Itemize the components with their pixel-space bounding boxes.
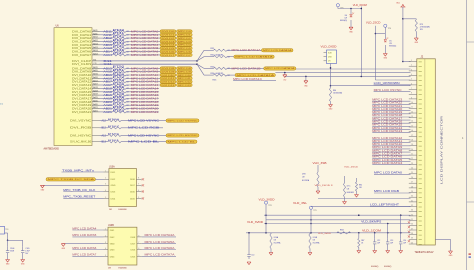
- svg-text:RT63: RT63: [113, 110, 126, 112]
- sheet border: [462, 0, 474, 270]
- svg-text:8: 8: [138, 178, 139, 180]
- wire row DVI_DATA6 b: [126, 51, 160, 53]
- U6 pin stub DVI_DATA5: [92, 46, 100, 49]
- svg-text:18: 18: [411, 140, 413, 142]
- refdes J2: [421, 55, 424, 59]
- U6 pin name DVI_CLKP: [72, 59, 91, 63]
- svg-text:GND: GND: [110, 244, 115, 246]
- svg-text:VLD_2SCD: VLD_2SCD: [366, 21, 381, 24]
- net label MPC_LCD_DATA6: [131, 50, 159, 54]
- ground U10B: [61, 244, 66, 250]
- U6 pin stub DVI_DATA9: [92, 69, 100, 72]
- svg-text:C11: C11: [93, 63, 96, 65]
- wire D6 to bus: [330, 64, 332, 87]
- svg-text:2: 2: [105, 178, 106, 180]
- U6 pin stub DVI_AC_MAX_B0: [92, 141, 100, 143]
- U6 pin stub DVI_DATA7: [92, 53, 100, 56]
- wire row DVI_DATA14: [100, 87, 113, 89]
- wire to connector pin1: [403, 61, 411, 63]
- net label MPC LCD DATA4A right: [142, 234, 176, 237]
- ground D7C: [343, 202, 347, 205]
- U6 pin name DVI_DATA10: [72, 73, 92, 77]
- svg-text:10K/0603(R): 10K/0603(R): [333, 93, 343, 95]
- net label MPC_LCD_DATA0: [131, 29, 159, 33]
- wire row DVI_DATA6: [100, 51, 113, 53]
- ground D7B: [316, 191, 320, 194]
- resistor RT10 0R: [113, 67, 127, 70]
- wire VLD_3VDD vertical: [402, 7, 404, 62]
- IC U10A body: [109, 169, 136, 207]
- wire bus y72.6: [275, 72, 410, 74]
- svg-text:VLD_DIOD: VLD_DIOD: [321, 46, 337, 49]
- wire row DVI_DATA20 b: [126, 108, 159, 110]
- U6 pin stub DVI_CLKN: [92, 63, 100, 65]
- offpage flag MPC_LCD_DATA10 b: [177, 73, 193, 76]
- wire C29 branch: [403, 18, 416, 21]
- value 0R row 21: [126, 105, 129, 107]
- svg-text:E04IGB3: E04IGB3: [347, 192, 354, 194]
- svg-text:DVI D4: DVI D4: [162, 45, 176, 47]
- svg-text:12: 12: [411, 111, 413, 113]
- wire bus y76.4: [285, 76, 411, 78]
- svg-text:DVI_HSYNC: DVI_HSYNC: [70, 133, 91, 137]
- net pin label A13: [102, 134, 107, 137]
- svg-text:C14: C14: [403, 240, 406, 242]
- wire VLD_2SCD vertical: [375, 26, 377, 80]
- svg-text:LCD DISPLAY CONNECTOR: LCD DISPLAY CONNECTOR: [439, 116, 443, 184]
- svg-text:MPC LCD HSYNC: MPC LCD HSYNC: [168, 135, 199, 137]
- wire U10B gnd pin: [63, 243, 103, 245]
- ground C12: [371, 251, 379, 268]
- ground D10A: [269, 253, 273, 256]
- svg-text:MPC LCD DATA21: MPC LCD DATA21: [131, 110, 159, 114]
- refdes U10B: [108, 225, 114, 227]
- wire row DVI_DATA1 b: [126, 34, 160, 36]
- wire row DVI_DATA18: [100, 101, 113, 103]
- U10B left pin 5 DI04: [104, 255, 116, 258]
- svg-text:DI05: DI05: [131, 256, 136, 258]
- offpage flag MPC_LCD_DATA9 a: [160, 70, 176, 73]
- net pin label AB17: [103, 80, 112, 84]
- net pin label B13: [102, 141, 107, 144]
- net pin label AA18: [103, 90, 112, 94]
- net pin label AA11: [103, 33, 112, 37]
- svg-text:3: 3: [105, 184, 106, 186]
- svg-text:RT54: RT54: [113, 80, 126, 82]
- U10B right pin 7 DI07: [131, 242, 142, 246]
- svg-text:AA14: AA14: [93, 53, 97, 56]
- U6 pin name DVI_CLKN: [72, 62, 91, 66]
- svg-text:U10B: U10B: [108, 225, 114, 227]
- diode D5 label: [389, 41, 396, 48]
- U10A right pin 5 DI05: [130, 197, 144, 201]
- net pin label AA19: [103, 97, 112, 101]
- wire row DVI_DATA0: [100, 30, 113, 32]
- power label VLD_3COM: [353, 4, 367, 7]
- net pin label AB20: [103, 100, 112, 104]
- U6 pin name DVI_DATA0: [72, 29, 92, 33]
- U10A right pin 7 DI07: [130, 184, 144, 188]
- wire bus y223.5: [264, 223, 411, 225]
- svg-text:RT61: RT61: [108, 140, 121, 142]
- wire DVI_AC_MAX_B0 b: [121, 141, 166, 143]
- svg-text:RT59: RT59: [113, 97, 126, 99]
- wire row DVI_DATA7 b: [126, 54, 160, 56]
- svg-text:E6SG(D): E6SG(D): [389, 45, 396, 47]
- svg-text:AA21: AA21: [93, 110, 97, 113]
- svg-text:DI07: DI07: [131, 244, 136, 246]
- diode D7B: [302, 165, 319, 191]
- value 0R row 3: [126, 41, 129, 43]
- offpage flag MPC_LCD_DATA0 b: [177, 30, 193, 33]
- svg-text:26: 26: [411, 177, 413, 179]
- connector J2 body: [417, 59, 436, 245]
- svg-text:VLD_3NL: VLD_3NL: [293, 202, 308, 205]
- net label MPC_LCD_DATA17: [131, 97, 159, 101]
- U6 pin stub DVI_DATA10: [92, 73, 100, 76]
- svg-text:C13: C13: [390, 240, 393, 242]
- resistor RT3 0R: [113, 40, 127, 43]
- svg-text:MPC D0: MPC D0: [178, 31, 192, 33]
- svg-text:1: 1: [105, 228, 106, 230]
- U10B left pin 2 DI02: [104, 235, 116, 239]
- U6 pin stub DVI_DATA12: [92, 79, 100, 82]
- offpage flag MPC_LCD_DATA12 b: [177, 80, 193, 83]
- resistor R53: [204, 66, 227, 69]
- svg-text:RT44: RT44: [113, 43, 126, 45]
- svg-text:AB17: AB17: [93, 79, 97, 82]
- svg-text:8: 8: [138, 235, 139, 237]
- testpoint TP9: [309, 206, 316, 212]
- net pin label AB14: [103, 50, 112, 54]
- svg-text:AA15: AA15: [93, 69, 97, 72]
- svg-text:B12: B12: [102, 127, 107, 130]
- U6 pin stub DVI_DATA2: [92, 36, 100, 39]
- svg-text:RT41: RT41: [113, 33, 126, 35]
- value 0R row 17: [126, 92, 129, 94]
- svg-text:VLD_BKMPS: VLD_BKMPS: [361, 221, 382, 224]
- net label MPC LCD VSYNC: [128, 119, 159, 123]
- U6 pin name DVI_DATA18: [72, 100, 92, 104]
- wire clock DVI_CLKP: [100, 60, 198, 62]
- wire row DVI_DATA19 b: [126, 104, 159, 106]
- wire bus y219.8: [266, 219, 411, 221]
- svg-text:37: 37: [411, 228, 413, 230]
- svg-text:35: 35: [411, 219, 413, 221]
- diode D5: [384, 34, 388, 54]
- wire bus y198.5: [318, 198, 411, 200]
- U6 pin name DVI_DATA3: [72, 40, 92, 44]
- net label MPC_LCD_DATA20: [131, 107, 159, 111]
- U10B right pin 5 DI05: [131, 255, 142, 258]
- svg-text:RT52: RT52: [113, 73, 126, 75]
- U6 pin name DVI_RGB: [70, 126, 91, 130]
- value 0R R54+0603(R): [227, 75, 230, 77]
- wire gnd stub a: [284, 73, 286, 75]
- wire row DVI_DATA14 b: [126, 87, 159, 89]
- value 0R row 15: [126, 85, 129, 87]
- svg-text:RT67: RT67: [108, 126, 121, 128]
- U10B right pin 6 DI06: [131, 248, 142, 252]
- svg-text:RT60: RT60: [113, 100, 126, 102]
- offpage flag MPC_LCD_DATA9 b: [177, 70, 193, 73]
- svg-text:VLD_3VDD: VLD_3VDD: [318, 233, 332, 235]
- wire row DVI_DATA4: [100, 44, 113, 46]
- wire row DVI_DATA10: [100, 74, 113, 76]
- svg-text:VLD_1COM: VLD_1COM: [362, 230, 381, 233]
- connector J2 title: [439, 116, 443, 184]
- svg-text:VLD_3VDD: VLD_3VDD: [247, 221, 263, 224]
- svg-text:36: 36: [411, 224, 413, 226]
- net pin label AB19: [103, 93, 112, 97]
- net pin label AA21: [103, 110, 112, 114]
- svg-text:32: 32: [411, 205, 413, 207]
- svg-text:DVI_AC_MAX_B0: DVI_AC_MAX_B0: [70, 140, 92, 144]
- resistor RT18 0R: [113, 94, 127, 97]
- svg-text:11: 11: [411, 107, 413, 109]
- svg-text:25: 25: [411, 172, 413, 174]
- cut marks bottom right: [469, 254, 471, 258]
- wire fan R51: [227, 49, 262, 51]
- power label VLD_DIOD low: [315, 166, 359, 186]
- svg-text:U10A: U10A: [109, 165, 115, 168]
- wire row DVI_DATA9: [100, 71, 113, 73]
- ground R106: [6, 260, 11, 266]
- U10A left pin 3 GND: [104, 184, 116, 188]
- resistor RT13 0R: [113, 77, 127, 80]
- net label MPC_LCD_RGB: [374, 190, 411, 193]
- U6 pin name DVI_DATA7: [72, 53, 92, 57]
- resistor R79: [415, 20, 430, 39]
- wire bus y80: [375, 79, 410, 81]
- svg-text:1UF: 1UF: [390, 243, 393, 245]
- U6 pin stub DVI_DATA21: [92, 110, 100, 113]
- U10B left pin 3 GND: [104, 242, 115, 246]
- wire row DVI_DATA2 b: [126, 37, 160, 39]
- U6 pin stub DVI_DATA0: [92, 29, 100, 32]
- net labels block2 MPC_LCD_DATA: [372, 136, 410, 165]
- net label MPC LCD DATA6 left: [72, 247, 103, 250]
- resistor RT6 0R: [113, 50, 127, 53]
- svg-text:MPC LCD DATA1B: MPC LCD DATA1B: [232, 66, 261, 70]
- svg-text:6: 6: [138, 248, 139, 250]
- wire row DVI_DATA17: [100, 98, 113, 100]
- svg-text:C10: C10: [251, 255, 254, 257]
- U6 pin name DVI_AC_MAX_B0: [70, 140, 92, 144]
- U6 pin name DVI_DATA16: [72, 93, 92, 97]
- refdes U6: [56, 24, 60, 27]
- svg-text:21: 21: [411, 154, 413, 156]
- U6 pin name DVI_DATA5: [72, 46, 92, 50]
- wire row DVI_DATA15 b: [126, 91, 159, 93]
- svg-text:RT61: RT61: [113, 104, 126, 106]
- no-connect marks J2: [408, 221, 410, 242]
- svg-text:RT51: RT51: [113, 70, 126, 72]
- U6 pin name DVI_DATA1: [72, 33, 92, 37]
- svg-text:MPC D3: MPC D3: [178, 41, 192, 43]
- diode D4: [350, 9, 354, 28]
- wire row DVI_DATA1: [100, 34, 113, 36]
- svg-text:DI01: DI01: [111, 172, 116, 174]
- svg-text:1UF: 1UF: [377, 243, 380, 245]
- svg-text:29: 29: [411, 191, 413, 193]
- value 0R row 18: [126, 95, 129, 97]
- U6 pin stub DVI_DATA3: [92, 39, 100, 42]
- value 0R row 14: [126, 82, 129, 84]
- svg-text:AB14: AB14: [93, 49, 97, 52]
- net label MPC LCD DATA5 left: [72, 234, 103, 237]
- U6 pin name DVI_DATA20: [72, 107, 92, 111]
- resistor RT16 0R: [113, 87, 127, 90]
- net label MPC LCD BL: [128, 140, 160, 144]
- wire row DVI_DATA11: [100, 77, 113, 79]
- U6 pin stub DVI_DATA20: [92, 106, 100, 109]
- diode D4 label: [340, 15, 347, 22]
- svg-text:AB15: AB15: [93, 66, 97, 69]
- value 0R R52+0603(R): [227, 57, 230, 59]
- svg-text:RT62: RT62: [113, 107, 126, 109]
- offpage flag MPC_LCD_DATA7 a: [160, 53, 176, 56]
- ground D5: [383, 54, 388, 60]
- svg-text:20: 20: [411, 149, 413, 151]
- svg-text:R81: R81: [359, 184, 362, 186]
- svg-text:13: 13: [411, 116, 413, 118]
- svg-text:RT53: RT53: [113, 77, 126, 79]
- wire fan R53: [227, 67, 264, 69]
- power label VLD_3VDD mid: [259, 198, 275, 201]
- wire bus y85.7: [331, 85, 411, 87]
- net label MPC_LCD_DATA7: [131, 53, 159, 57]
- U6 pin stub DVI_CLKP: [92, 60, 100, 62]
- svg-text:AA11: AA11: [93, 32, 97, 35]
- ground C29: [414, 38, 419, 44]
- svg-text:MPC LCD BL: MPC LCD BL: [128, 140, 160, 144]
- svg-text:1UF: 1UF: [403, 243, 406, 245]
- offpage flag fan R51: [262, 49, 294, 53]
- svg-text:MPC LCD DATA1A: MPC LCD DATA1A: [263, 49, 292, 52]
- svg-text:DVI_DATA7: DVI_DATA7: [72, 53, 92, 57]
- svg-text:E04IGB0: E04IGB0: [119, 267, 128, 269]
- testpoint TP8: [264, 201, 271, 207]
- U6 pin stub DVI_DATA19: [92, 103, 100, 106]
- svg-text:5: 5: [138, 197, 139, 199]
- U6 pin name DVI_DATA11: [72, 76, 92, 80]
- svg-text:1M: 1M: [109, 209, 112, 211]
- offpage flag MPC LCD VSYNC: [166, 119, 199, 123]
- svg-text:DVI_RGB: DVI_RGB: [70, 126, 91, 130]
- wire row DVI_DATA20: [100, 108, 113, 110]
- junction clock DVI_CLKN: [196, 63, 198, 65]
- wire row DVI_DATA3 b: [126, 41, 160, 43]
- svg-text:DI06: DI06: [131, 249, 136, 251]
- resistor RT19 0R: [113, 97, 127, 100]
- svg-text:VLD_DIOD 3: VLD_DIOD 3: [315, 185, 334, 187]
- resistor R52+0603(R): [204, 55, 227, 58]
- U10A part number: [109, 209, 128, 211]
- connector TP4 body: [0, 226, 8, 234]
- svg-text:VLD_3SB: VLD_3SB: [313, 162, 328, 165]
- svg-text:AA16: AA16: [93, 76, 97, 79]
- offpage flag MPC_LCD_DATA8 a: [160, 67, 176, 70]
- net label MPC_LCD_DATA5: [131, 46, 159, 50]
- ground U10A: [40, 185, 45, 191]
- resistor RT17 0R: [113, 90, 127, 93]
- svg-text:38: 38: [411, 233, 413, 235]
- offpage flag MPC_LCD_DATA10 a: [160, 73, 176, 76]
- net pin label AB13: [103, 43, 112, 47]
- ground J2: [449, 251, 454, 257]
- value 0R row 23: [126, 112, 129, 114]
- svg-text:DI08: DI08: [131, 237, 136, 239]
- U6 pin name DVI_DATA8: [72, 66, 92, 70]
- offpage flag MPC_LCD_DATA6 a: [160, 50, 176, 53]
- net label MPC_LCD_DATA8: [131, 66, 159, 70]
- wire row DVI_DATA19: [100, 104, 113, 106]
- value 0R row 13: [126, 78, 129, 80]
- value 0R row 7: [126, 55, 129, 57]
- resistor R54+0603(R): [204, 73, 227, 76]
- wire bus y215.2: [264, 214, 411, 216]
- svg-text:28: 28: [411, 186, 413, 188]
- connector J2 gnd pin wire: [435, 239, 450, 251]
- wire row DVI_DATA5 b: [126, 47, 160, 49]
- net pin label C11: [103, 62, 112, 66]
- svg-text:R87: R87: [361, 240, 364, 242]
- diode pack D6: [324, 50, 337, 64]
- U6 pin name DVI_DATA14: [72, 86, 92, 90]
- wire TP8: [265, 205, 267, 233]
- net label MPC_LCD_DATA11: [131, 76, 159, 80]
- connector J2 pins: [409, 62, 417, 245]
- wire row DVI_DATA4 b: [126, 44, 160, 46]
- svg-text:A13: A13: [102, 134, 107, 137]
- wire fan R52+0603(R): [227, 56, 234, 58]
- svg-text:MPC D10: MPC D10: [178, 75, 192, 77]
- resistor RT5 0R: [113, 47, 127, 50]
- U6 pin stub DVI_DATA11: [92, 76, 100, 79]
- offpage flag fan R54+0603(R): [235, 73, 275, 77]
- resistor RT DVI_VSYNC: [108, 119, 121, 122]
- U6 pin stub DVI_RGB: [92, 127, 100, 129]
- wire fan R54+0603(R): [227, 74, 235, 76]
- junction clock DVI_CLKP: [196, 60, 198, 62]
- wire row DVI_DATA5: [100, 47, 113, 49]
- resistor R81: [355, 178, 362, 195]
- wire clk diag2: [197, 64, 204, 75]
- U6 pin stub DVI_VSYNC: [92, 120, 100, 122]
- value 0R row 11: [126, 71, 129, 73]
- IC U10B body: [108, 227, 137, 265]
- svg-text:VLD_3COM: VLD_3COM: [353, 4, 367, 7]
- svg-text:DI03: DI03: [110, 249, 115, 251]
- svg-text:16: 16: [411, 130, 413, 132]
- ground C14: [399, 251, 403, 254]
- svg-text:R80: R80: [333, 90, 336, 92]
- value 0R row 6: [126, 51, 129, 53]
- wire row DVI_DATA8 b: [126, 67, 160, 69]
- net label MPC_TX0B_RESET: [63, 196, 103, 199]
- svg-text:C105: C105: [25, 248, 29, 250]
- net label MPC LCD DATA5A right: [142, 241, 176, 244]
- svg-text:VLD_2SCD: VLD_2SCD: [344, 166, 359, 168]
- svg-text:17: 17: [411, 135, 413, 137]
- net label MPC_LCD_DATA0: [374, 172, 411, 175]
- offpage flag MPC_LCD_DATA1 a: [160, 33, 176, 36]
- svg-text:MPC LCD DATA1A: MPC LCD DATA1A: [265, 67, 295, 70]
- resistor RT DVI_AC_MAX_B0: [108, 140, 121, 143]
- value 0R row 12: [126, 75, 129, 77]
- value 0R row 1: [126, 35, 129, 37]
